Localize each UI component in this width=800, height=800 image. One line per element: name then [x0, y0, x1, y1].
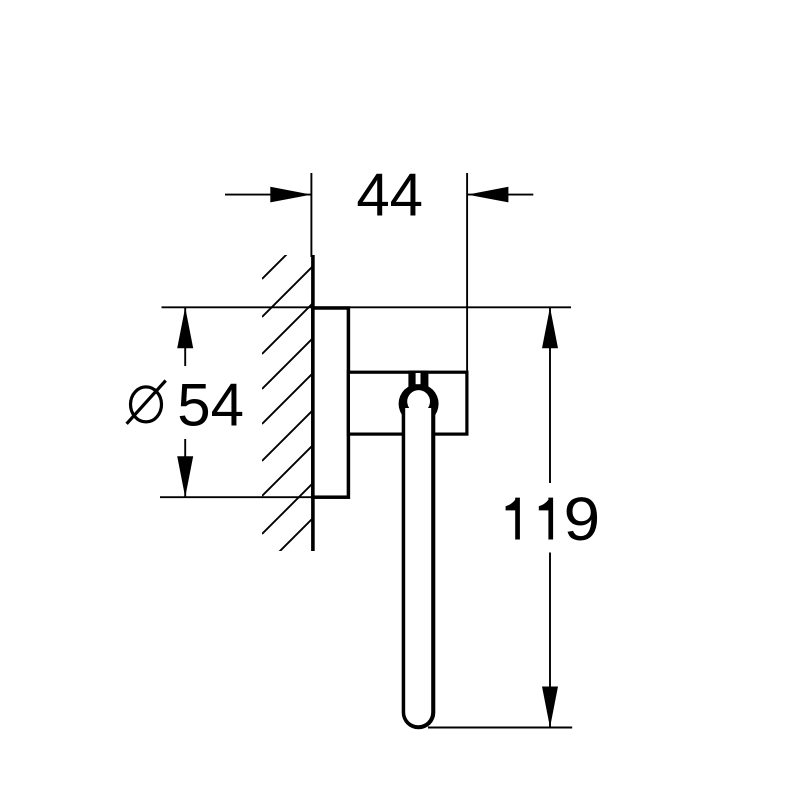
bottom-left extension line y497	[160, 496, 348, 498]
dia54 up arrow	[177, 307, 193, 348]
svg-text:9: 9	[564, 485, 601, 553]
bottom extension line y727	[428, 727, 572, 729]
top extension line y307	[162, 306, 572, 308]
extension line above wall (left ext of 44)	[310, 173, 312, 257]
wall line	[311, 255, 315, 551]
119 down arrow	[542, 687, 558, 728]
44 dim right line	[468, 194, 534, 196]
svg-text:44: 44	[356, 162, 423, 229]
svg-text:54: 54	[177, 371, 244, 438]
44 dim right arrow	[467, 187, 508, 203]
44 dim left arrow	[270, 187, 311, 203]
mounting plate	[313, 308, 349, 497]
dia54 down arrow	[177, 456, 193, 497]
119 dim line upper	[549, 307, 551, 483]
diameter symbol	[127, 381, 166, 424]
44 dim left line	[225, 194, 311, 196]
ring inner slot	[405, 408, 431, 725]
text 119 digit 1a	[506, 498, 520, 540]
dia54 dim line upper	[184, 307, 186, 366]
ring cap	[399, 384, 439, 424]
ring cap hole	[407, 390, 430, 413]
dia54 dim line lower	[184, 439, 186, 497]
right extension line of 44	[466, 173, 468, 372]
text 119 digit 1b	[539, 498, 553, 540]
bracket	[348, 372, 467, 434]
ring outer	[402, 386, 436, 729]
119 up arrow	[542, 307, 558, 348]
pivot slot	[416, 373, 421, 384]
pivot neck	[408, 371, 428, 391]
119 dim line lower	[549, 553, 551, 728]
